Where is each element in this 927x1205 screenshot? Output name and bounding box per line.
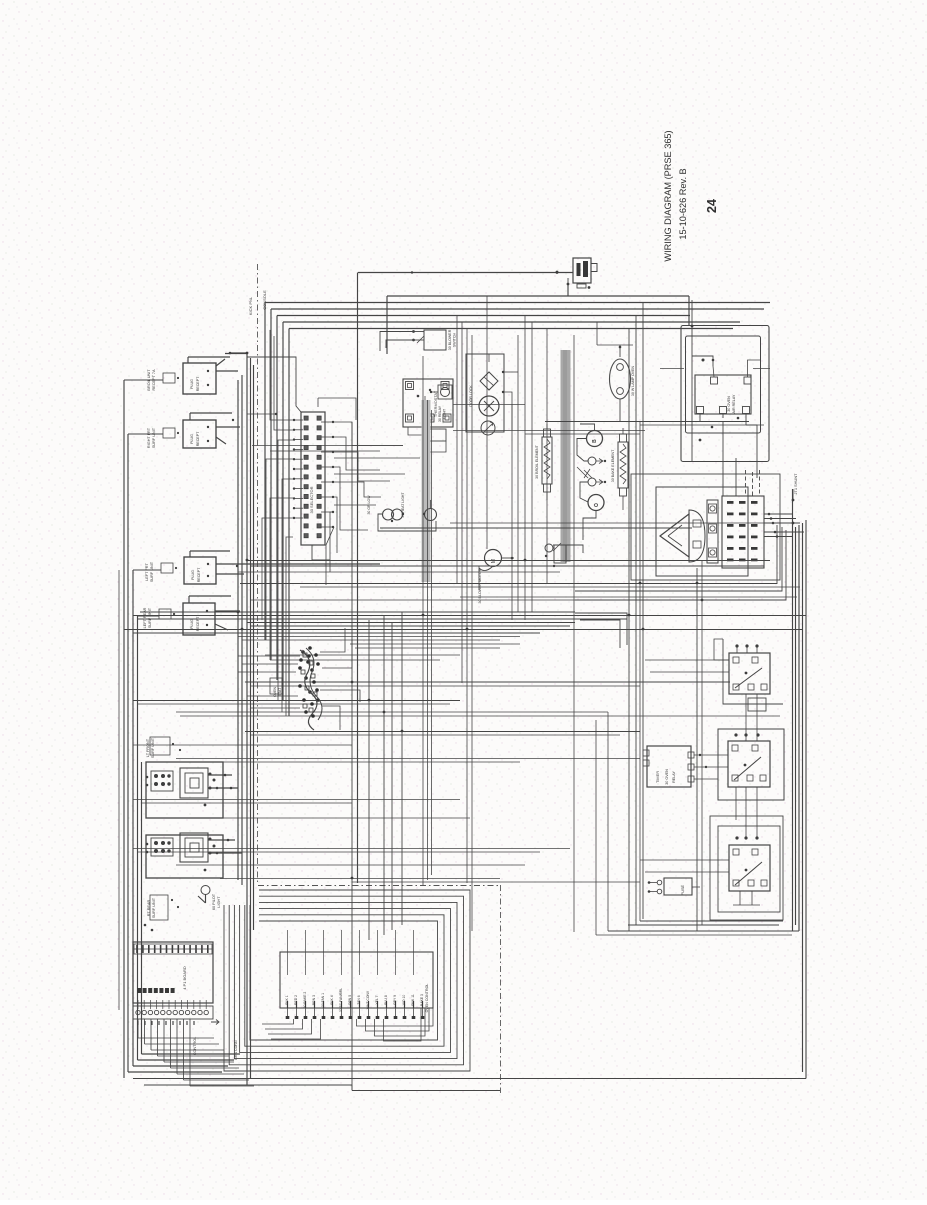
svg-text:RIGHT FRT: RIGHT FRT [147, 427, 151, 448]
motor 30 BLOWER MOTOR [478, 550, 514, 604]
switch SW3 box [184, 551, 380, 584]
lamp 30 OVEN LAMP oval [610, 345, 636, 422]
wire bundle y700-737 [133, 701, 780, 736]
wire legend top feeds [288, 930, 414, 975]
panel boundary dash-dot line horizontal [258, 885, 500, 887]
wire light-switch feed horizontal [358, 272, 573, 274]
terminal board bottom labels [138, 1020, 219, 1026]
svg-text:LIGHT: LIGHT [217, 896, 221, 908]
ignitor circle B [587, 431, 603, 447]
svg-text:RECEPT: RECEPT [197, 567, 201, 582]
wire nested routing rings [224, 890, 470, 1071]
switch 30 BLOWER SWITCH [380, 329, 457, 351]
svg-text:PLUG: PLUG [191, 570, 195, 580]
svg-text:30 OR LOW: 30 OR LOW [367, 495, 371, 515]
wire bundle y612-640 dense [124, 612, 806, 640]
connector legend box [280, 952, 433, 1008]
wire selector fan left [262, 330, 293, 716]
terminal board contact squares [137, 988, 175, 993]
halftone scan band main [561, 350, 571, 562]
wire spark module runs [553, 424, 596, 553]
connector housing [689, 510, 705, 562]
element 30 BROIL ELEMENT [535, 424, 552, 500]
wire right bundle [793, 489, 803, 1072]
halftone scan band secondary [422, 400, 431, 582]
svg-text:24: 24 [705, 199, 719, 213]
selector right terminal stubs [321, 421, 334, 528]
panel boundary dash-dot line vertical [257, 264, 259, 884]
legend bottom terminals [286, 1008, 425, 1019]
legend labels [285, 984, 429, 1013]
svg-text:OVEN CONTROL: OVEN CONTROL [425, 984, 429, 1013]
spark electrode lower [584, 469, 606, 486]
connector plug triangle [660, 514, 689, 557]
wire bundle y799-820 [133, 800, 470, 819]
relay 30 OVEN RELAY [695, 375, 751, 414]
indicator 30 HEAT LIGHT [378, 492, 437, 531]
svg-text:RECEPT: RECEPT [196, 616, 200, 631]
connector pin block hatched [722, 496, 764, 568]
wire oven relay bottom leads [699, 414, 757, 497]
wire oven relay outer container [681, 326, 769, 462]
svg-text:4 P1 BOARD: 4 P1 BOARD [182, 966, 187, 990]
svg-text:30 BLOWER: 30 BLOWER [448, 329, 452, 350]
wire door lock leads [489, 354, 518, 430]
svg-text:30 OVEN: 30 OVEN [727, 396, 731, 412]
wire connector bottom frame [657, 575, 740, 577]
wire y296 branch [387, 284, 689, 354]
wire SW1 leads [216, 352, 247, 366]
wire right mid horizontals y404-452 [252, 345, 770, 451]
terminal board header marks [134, 945, 212, 953]
svg-text:STAT: STAT [278, 687, 282, 696]
svg-text:RECEPT: RECEPT [196, 431, 200, 446]
switch SW2 box [183, 413, 240, 448]
wire y682 long [245, 682, 730, 686]
selector switch 30 SELECTOR [301, 412, 325, 545]
wire center verticals [352, 296, 702, 1090]
relay K3 with containers [710, 816, 783, 920]
receptacle label LEFT REAR SURFACE UNIT [143, 607, 175, 628]
svg-text:O: O [594, 503, 600, 507]
receptacle label BROIL UNIT RECEPT [147, 369, 179, 391]
wire outer loop right edge [805, 520, 807, 1079]
svg-text:M: M [491, 559, 497, 563]
wire oven relay top bracket [692, 356, 760, 377]
svg-text:RECEPT: RECEPT [196, 376, 200, 391]
svg-text:WIRING DIAGRAM (PRSE 365): WIRING DIAGRAM (PRSE 365) [663, 130, 673, 261]
wire long vertical from light switch [357, 273, 359, 884]
terminal board TB1 [133, 942, 213, 1003]
indicator 30 OR LOW light [367, 495, 403, 520]
wire top bundle nested loops [265, 303, 770, 717]
label LEFT FRONT SURFACE UNIT cluster [146, 737, 181, 758]
switch SW1 box [183, 357, 238, 394]
svg-text:15-10-626 Rev. B: 15-10-626 Rev. B [678, 168, 688, 239]
infinite switch B [146, 833, 242, 878]
indicator 30 RELAY LIGHT [430, 385, 452, 422]
relay K1 [714, 639, 783, 741]
timer TIMER box [643, 746, 728, 787]
wire selector bottom stub [312, 545, 330, 560]
wire connector east leads [764, 513, 804, 538]
svg-text:30 SELECTOR: 30 SELECTOR [309, 486, 314, 513]
svg-text:SWITCH: SWITCH [453, 333, 457, 348]
svg-text:LT FRONT: LT FRONT [146, 738, 150, 757]
svg-text:B: B [592, 439, 598, 443]
svg-text:TIMER: TIMER [655, 771, 660, 783]
connector container box [631, 474, 780, 580]
label OVEN CONTROL lower [193, 1037, 238, 1060]
wire bundle y583 [240, 584, 800, 601]
svg-text:AIR RELAY: AIR RELAY [732, 394, 736, 414]
svg-text:LIGHT: LIGHT [443, 408, 447, 419]
svg-text:SURF UNIT: SURF UNIT [152, 897, 156, 918]
wire terminal board drops [138, 1019, 254, 1086]
terminal board screw terminals [133, 1000, 213, 1019]
thermostat 30 THERMOSTAT box [403, 379, 453, 427]
spark electrode upper [588, 457, 606, 465]
wire bundle y848-886 [133, 849, 640, 883]
svg-text:SURF UNIT: SURF UNIT [152, 427, 156, 448]
wire selector aux horizontals [334, 458, 420, 505]
receptacle label LEFT FRT SURFACE UNIT [145, 561, 177, 582]
svg-text:PLUG: PLUG [190, 379, 194, 389]
label RIGHT REAR SURFACE UNIT cluster [144, 895, 179, 931]
wire bottom right bundle [596, 712, 799, 935]
fuse F1 [648, 878, 700, 895]
thermostat capillary cluster [270, 646, 322, 730]
contact pair near band [545, 543, 566, 567]
svg-text:30 BROIL ELEMENT: 30 BROIL ELEMENT [535, 444, 539, 478]
element 30 BAKE ELEMENT [611, 428, 628, 510]
wire left outer bundle [119, 380, 142, 1078]
svg-text:JT1 SHUNT: JT1 SHUNT [793, 473, 798, 495]
pilot light GLO lamp [198, 886, 221, 911]
wire bundle y745-765 [133, 745, 640, 762]
wire vertical through relay container [691, 300, 693, 462]
selector left terminal stubs [293, 419, 303, 519]
wire bottom long runs [144, 1085, 500, 1091]
svg-text:60 PILOT: 60 PILOT [212, 893, 216, 910]
wire relay feed stubs [640, 660, 729, 872]
svg-text:30 BAKE ELEMENT: 30 BAKE ELEMENT [611, 449, 615, 482]
switch SW4 box [183, 596, 240, 635]
wire right mid loops [575, 525, 786, 648]
wire selector top loop [247, 357, 356, 420]
svg-text:FUSE: FUSE [681, 884, 685, 895]
ignitor circle O [588, 495, 604, 511]
wire connector pins top dashed [746, 470, 760, 496]
wire outer loop bottom [133, 1078, 806, 1080]
wire bundle y560 [238, 561, 770, 573]
svg-text:SURF UNIT: SURF UNIT [150, 561, 154, 582]
svg-text:LEFT FRT: LEFT FRT [145, 563, 149, 581]
infinite switch A [146, 762, 238, 818]
wire bundle y644-660 [265, 644, 520, 660]
svg-text:OVEN: OVEN [273, 687, 277, 697]
panel boundary dash-dot line vertical lower [500, 885, 502, 1093]
svg-text:30 RELAY: 30 RELAY [438, 405, 442, 422]
wire inner rings from legend [262, 1008, 433, 1041]
svg-text:PLUG: PLUG [190, 434, 194, 444]
svg-text:SURF UNIT: SURF UNIT [148, 607, 152, 628]
wire bottom-left fan [128, 1054, 240, 1072]
wire y528 long [380, 523, 775, 528]
connector module column [707, 500, 718, 563]
svg-text:KICK PNL: KICK PNL [248, 296, 253, 315]
svg-text:RELAY: RELAY [672, 771, 676, 783]
thermostat lower box [408, 427, 446, 452]
svg-text:30 W LAMP OVEN: 30 W LAMP OVEN [631, 365, 635, 396]
wire console bundle verticals [238, 353, 254, 1085]
receptacle label RIGHT FRT SURFACE UNIT [147, 427, 179, 448]
svg-text:30 TC FAN/BRL: 30 TC FAN/BRL [339, 988, 343, 1012]
wire selector right fan [326, 422, 403, 585]
svg-text:CONTROL: CONTROL [193, 1037, 197, 1056]
label JT1 SHUNT [792, 473, 798, 502]
svg-text:LEFT REAR: LEFT REAR [143, 607, 147, 628]
door lock motor assembly [466, 354, 504, 435]
wire label box feed stubs [124, 380, 163, 616]
wire cluster feeds [238, 628, 360, 730]
svg-text:30 OVEN: 30 OVEN [665, 769, 669, 785]
svg-text:PLUG: PLUG [190, 619, 194, 629]
switch OVEN LIGHT SWITCH [567, 258, 597, 289]
relay K2 with container [718, 729, 784, 838]
